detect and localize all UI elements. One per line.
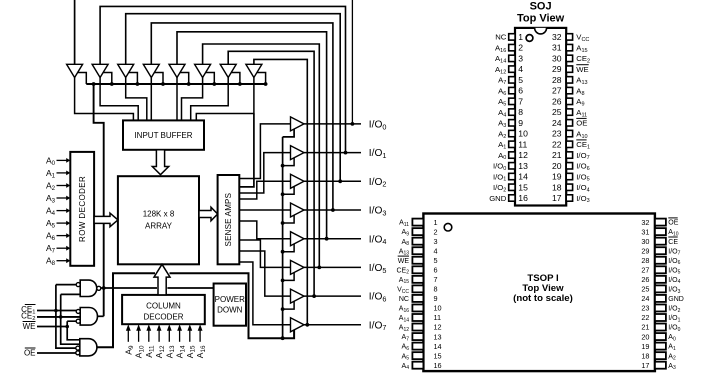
wire B6 output to input buffer block — [191, 78, 229, 121]
svg-text:A6: A6 — [402, 344, 410, 352]
wire sense amp to output buffer O1 — [239, 153, 290, 193]
svg-text:6: 6 — [434, 266, 438, 275]
SOJ pin 32 lead — [566, 34, 572, 40]
SOJ pin 15 lead — [509, 184, 515, 190]
TSOP pin 20 lead — [655, 333, 666, 340]
TSOP pin 4 lead — [412, 247, 423, 254]
SOJ pin 19 lead — [566, 173, 572, 179]
output buffer triangle O3 — [291, 203, 305, 217]
svg-text:A3: A3 — [498, 119, 506, 129]
svg-text:A14: A14 — [495, 54, 506, 64]
wire sense amp to output buffer O4 — [239, 221, 290, 239]
input buffer triangle B1 — [92, 64, 108, 77]
block POWER DOWN — [214, 284, 246, 326]
wire enable tap to buffer O5 — [283, 272, 295, 281]
input buffer triangle B4 — [169, 64, 185, 77]
junction I/O5 feedback tap — [317, 266, 321, 270]
input buffer triangle B0 — [67, 64, 83, 77]
TSOP pin 21 lead — [655, 324, 666, 331]
SOJ pin 31 lead — [566, 44, 572, 50]
svg-text:I/O3: I/O3 — [369, 206, 387, 218]
svg-text:23: 23 — [641, 304, 649, 313]
svg-text:A14: A14 — [399, 315, 409, 323]
junction CE1 tap — [54, 309, 58, 313]
svg-text:I/O5: I/O5 — [576, 172, 589, 182]
svg-text:GND: GND — [668, 296, 684, 303]
address input A10 arrow — [138, 331, 140, 342]
junction tap B2 on bus — [136, 82, 140, 86]
wire I/O3 feedback loop to input buffer B3 — [151, 23, 333, 210]
SOJ pin 9 lead — [509, 120, 515, 126]
junction I/O4 feedback tap — [325, 237, 329, 241]
svg-text:30: 30 — [552, 53, 562, 63]
wire I/O5 line — [304, 266, 361, 268]
svg-text:32: 32 — [552, 32, 562, 42]
svg-text:I/O6: I/O6 — [576, 162, 589, 172]
input buffer triangle B3 — [143, 64, 159, 77]
TSOP pin 25 lead — [655, 285, 666, 292]
svg-text:WE: WE — [576, 65, 588, 74]
bubble G3 input OE — [76, 351, 80, 355]
svg-text:A4: A4 — [46, 206, 56, 218]
SOJ pin 29 lead — [566, 66, 572, 72]
svg-text:31: 31 — [641, 227, 649, 236]
svg-text:A10: A10 — [576, 129, 587, 139]
junction enable tap O4 — [281, 250, 285, 254]
enable tap of buffer B2 — [129, 73, 138, 85]
address input A4 arrow — [57, 210, 67, 212]
output buffer triangle O2 — [291, 174, 305, 188]
svg-text:A7: A7 — [46, 243, 56, 255]
bubble G2 input WE — [76, 319, 80, 323]
svg-text:A11: A11 — [399, 220, 409, 228]
svg-text:14: 14 — [434, 342, 442, 351]
svg-text:I/O6: I/O6 — [369, 292, 387, 304]
svg-text:COLUMN: COLUMN — [146, 302, 181, 311]
TSOP pin1 indicator circle — [444, 223, 452, 231]
output buffer triangle O4 — [291, 232, 305, 246]
junction I/O1 feedback tap — [344, 151, 348, 155]
svg-text:1: 1 — [518, 32, 523, 42]
hollow arrow column decoder to array — [154, 264, 170, 295]
svg-text:A1: A1 — [46, 168, 56, 180]
svg-text:29: 29 — [641, 246, 649, 255]
svg-text:CE2: CE2 — [396, 267, 409, 275]
svg-text:ARRAY: ARRAY — [145, 222, 173, 231]
svg-text:A13: A13 — [576, 76, 587, 86]
wire input of buffer B0 (clipped at top) — [74, 0, 76, 64]
wire B3 output to input buffer block — [150, 78, 152, 121]
SOJ pin 10 lead — [509, 130, 515, 136]
wire I/O2 line — [304, 180, 361, 182]
svg-text:12: 12 — [434, 323, 442, 332]
svg-text:32: 32 — [641, 218, 649, 227]
svg-text:A0: A0 — [46, 155, 56, 167]
wire sense amp to output buffer O2 — [239, 181, 290, 199]
junction enable tap O7 — [281, 336, 285, 340]
svg-text:A5: A5 — [402, 353, 410, 361]
gate G1 (chip enable NAND) — [80, 280, 97, 296]
svg-text:20: 20 — [552, 161, 562, 171]
svg-text:SOJ: SOJ — [530, 1, 552, 13]
svg-text:A8: A8 — [46, 256, 56, 268]
address input A15 arrow — [189, 331, 191, 342]
svg-text:11: 11 — [434, 313, 442, 322]
wire gate G3 output OE enable route to output buffers — [97, 273, 294, 347]
junction enable tap O3 — [281, 221, 285, 225]
hollow arrow row decoder to array — [94, 213, 118, 227]
wire WE net to gates G2 and G3 — [67, 321, 80, 340]
svg-text:A13: A13 — [399, 248, 409, 256]
gate G2 (write enable AND) — [80, 308, 97, 326]
svg-text:A6: A6 — [498, 86, 506, 96]
svg-text:A4: A4 — [498, 108, 506, 118]
TSOP pin 30 lead — [655, 238, 666, 245]
svg-text:ROW DECODER: ROW DECODER — [78, 176, 87, 242]
enable tap of buffer B4 — [180, 73, 189, 85]
address input A5 arrow — [57, 222, 67, 224]
svg-text:21: 21 — [641, 323, 649, 332]
address input A6 arrow — [57, 235, 67, 237]
SOJ top notch — [535, 28, 547, 34]
svg-text:I/O7: I/O7 — [668, 248, 680, 256]
svg-text:A5: A5 — [498, 97, 506, 107]
wire sense amp to output buffer O6 — [239, 251, 290, 296]
svg-text:A8: A8 — [402, 239, 410, 247]
junction bus to gate G2 net — [92, 82, 96, 86]
svg-text:A3: A3 — [46, 193, 56, 205]
junction enable tap O1 — [281, 164, 285, 168]
junction I/O7 feedback tap — [305, 323, 309, 327]
svg-text:6: 6 — [518, 86, 523, 96]
svg-text:23: 23 — [552, 129, 562, 139]
svg-text:A12: A12 — [495, 65, 506, 75]
svg-text:25: 25 — [552, 107, 562, 117]
svg-text:WE: WE — [398, 258, 410, 265]
wire I/O2 feedback loop to input buffer B2 — [126, 14, 341, 182]
address input A7 arrow — [57, 247, 67, 249]
SOJ pin 6 lead — [509, 87, 515, 93]
SOJ pin 23 lead — [566, 130, 572, 136]
svg-text:A16: A16 — [399, 306, 409, 314]
wire B4 output to input buffer block — [176, 78, 178, 121]
junction tap B3 on bus — [161, 82, 165, 86]
svg-text:28: 28 — [552, 75, 562, 85]
SOJ pin 4 lead — [509, 66, 515, 72]
address input A14 arrow — [179, 331, 181, 342]
svg-text:14: 14 — [518, 172, 528, 182]
SOJ pin 11 lead — [509, 141, 515, 147]
junction tap B1 on bus — [110, 82, 114, 86]
svg-text:A2: A2 — [668, 353, 676, 361]
svg-text:22: 22 — [552, 139, 562, 149]
svg-text:I/O4: I/O4 — [668, 277, 680, 285]
SOJ pin 3 lead — [509, 55, 515, 61]
svg-text:CE: CE — [668, 239, 678, 246]
address input A0 arrow — [57, 159, 67, 161]
svg-text:15: 15 — [518, 182, 528, 192]
svg-text:A16: A16 — [495, 43, 506, 53]
TSOP pin 9 lead — [412, 295, 423, 302]
wire WE input — [37, 326, 67, 328]
svg-text:7: 7 — [434, 275, 438, 284]
svg-text:13: 13 — [434, 332, 442, 341]
svg-text:I/O0: I/O0 — [668, 325, 680, 333]
bubble G3 input CE1 — [76, 346, 80, 350]
TSOP pin 31 lead — [655, 228, 666, 235]
svg-text:A9: A9 — [402, 229, 410, 237]
SOJ pin 28 lead — [566, 77, 572, 83]
svg-text:19: 19 — [641, 342, 649, 351]
svg-text:INPUT BUFFER: INPUT BUFFER — [134, 131, 192, 140]
svg-text:A11: A11 — [576, 108, 587, 118]
svg-text:2: 2 — [434, 227, 438, 236]
svg-text:NC: NC — [399, 296, 409, 303]
svg-text:SENSE AMPS: SENSE AMPS — [224, 193, 233, 247]
wire sense amp to output buffer O5 — [239, 240, 290, 267]
TSOP pin 2 lead — [412, 228, 423, 235]
wire I/O6 feedback loop to input buffer B6 — [228, 51, 314, 296]
address input A11 arrow — [148, 331, 150, 342]
junction I/O0 feedback tap — [351, 122, 355, 126]
svg-text:1: 1 — [434, 218, 438, 227]
wire gate G2 output stub — [97, 315, 103, 317]
svg-text:WE: WE — [23, 322, 36, 331]
TSOP pin 19 lead — [655, 343, 666, 350]
svg-text:I/O4: I/O4 — [369, 234, 387, 246]
svg-text:2: 2 — [518, 43, 523, 53]
block 128K x 8 ARRAY — [118, 176, 199, 264]
junction tap B6 on bus — [238, 82, 242, 86]
svg-text:VCC: VCC — [576, 33, 589, 43]
svg-text:CE2: CE2 — [576, 54, 590, 64]
svg-text:7: 7 — [518, 96, 523, 106]
TSOP pin 29 lead — [655, 247, 666, 254]
SOJ pin 13 lead — [509, 163, 515, 169]
svg-text:16: 16 — [518, 193, 528, 203]
TSOP pin 3 lead — [412, 238, 423, 245]
wire sense amp to output buffer O7 — [239, 262, 290, 325]
svg-text:27: 27 — [552, 86, 562, 96]
svg-text:DECODER: DECODER — [143, 313, 183, 322]
TSOP pin 17 lead — [655, 362, 666, 369]
svg-text:3: 3 — [434, 237, 438, 246]
svg-text:DOWN: DOWN — [217, 306, 243, 315]
svg-text:I/O5: I/O5 — [369, 263, 387, 275]
svg-text:A0: A0 — [668, 334, 676, 342]
junction tap B4 on bus — [187, 82, 191, 86]
TSOP pin 8 lead — [412, 285, 423, 292]
svg-text:A12: A12 — [399, 325, 409, 333]
address input A13 arrow — [168, 331, 170, 342]
svg-text:A2: A2 — [46, 180, 56, 192]
svg-text:18: 18 — [552, 182, 562, 192]
svg-text:POWER: POWER — [215, 295, 245, 304]
svg-text:30: 30 — [641, 237, 649, 246]
svg-text:A16: A16 — [195, 345, 207, 358]
TSOP pin 14 lead — [412, 343, 423, 350]
svg-text:(not to scale): (not to scale) — [513, 293, 573, 304]
svg-text:I/O7: I/O7 — [576, 151, 589, 161]
svg-text:10: 10 — [434, 304, 442, 313]
svg-text:5: 5 — [434, 256, 438, 265]
svg-text:27: 27 — [641, 266, 649, 275]
wire I/O4 line — [304, 238, 361, 240]
svg-text:22: 22 — [641, 313, 649, 322]
junction WE tap — [65, 325, 69, 329]
svg-text:CE1: CE1 — [576, 140, 590, 150]
svg-text:13: 13 — [518, 161, 528, 171]
svg-text:24: 24 — [552, 118, 562, 128]
SOJ pin 1 lead — [509, 34, 515, 40]
svg-text:I/O0: I/O0 — [493, 162, 506, 172]
input buffer triangle B7 — [246, 64, 262, 77]
TSOP pin 32 lead — [655, 219, 666, 226]
svg-text:8: 8 — [434, 285, 438, 294]
svg-text:I/O3: I/O3 — [668, 286, 680, 294]
enable tap of buffer B3 — [154, 73, 163, 85]
address input A8 arrow — [57, 260, 67, 262]
address input A12 arrow — [158, 331, 160, 342]
SOJ pin 8 lead — [509, 109, 515, 115]
SOJ pin 25 lead — [566, 109, 572, 115]
svg-text:24: 24 — [641, 294, 649, 303]
junction I/O2 feedback tap — [338, 179, 342, 183]
wire I/O3 line — [304, 209, 361, 211]
svg-text:VCC: VCC — [397, 286, 409, 294]
TSOP package body — [423, 214, 655, 372]
svg-text:I/O4: I/O4 — [576, 183, 589, 193]
svg-text:28: 28 — [641, 256, 649, 265]
SOJ pin 17 lead — [566, 195, 572, 201]
svg-text:A5: A5 — [46, 218, 56, 230]
wire CE1 net to gates G1 and G3 — [56, 285, 76, 349]
SOJ pin 27 lead — [566, 87, 572, 93]
wire I/O1 feedback loop to input buffer B1 — [100, 6, 345, 152]
svg-text:5: 5 — [518, 75, 523, 85]
TSOP pin 11 lead — [412, 314, 423, 321]
address input A16 arrow — [199, 331, 201, 342]
svg-text:21: 21 — [552, 150, 562, 160]
junction enable tap O6 — [281, 307, 285, 311]
svg-text:29: 29 — [552, 64, 562, 74]
svg-text:3: 3 — [518, 53, 523, 63]
svg-text:OE: OE — [668, 220, 678, 227]
SOJ pin 5 lead — [509, 77, 515, 83]
wire enable net bus to gate G2 output — [94, 84, 104, 316]
svg-text:25: 25 — [641, 285, 649, 294]
TSOP pin 15 lead — [412, 352, 423, 359]
svg-text:A15: A15 — [576, 43, 587, 53]
TSOP pin 28 lead — [655, 257, 666, 264]
SOJ pin 16 lead — [509, 195, 515, 201]
SOJ pin 12 lead — [509, 152, 515, 158]
svg-text:31: 31 — [552, 43, 562, 53]
enable tap of buffer B5 — [206, 73, 215, 85]
SOJ pin 7 lead — [509, 98, 515, 104]
svg-text:I/O5: I/O5 — [668, 267, 680, 275]
wire CE2 net to gates G1 and G3 — [61, 294, 80, 344]
svg-text:I/O6: I/O6 — [668, 258, 680, 266]
wire enable tap to buffer O1 — [283, 157, 295, 166]
svg-text:A15: A15 — [399, 277, 409, 285]
svg-text:A3: A3 — [668, 363, 676, 371]
wire OE input — [37, 352, 76, 354]
svg-text:A7: A7 — [402, 334, 410, 342]
TSOP pin 27 lead — [655, 266, 666, 273]
svg-text:I/O1: I/O1 — [493, 172, 506, 182]
block INPUT BUFFER — [123, 120, 204, 149]
TSOP pin 16 lead — [412, 362, 423, 369]
SOJ package body — [515, 28, 566, 206]
svg-text:A1: A1 — [668, 344, 676, 352]
svg-text:10: 10 — [518, 129, 528, 139]
bubble G1 output — [97, 286, 101, 290]
TSOP pin 18 lead — [655, 352, 666, 359]
wire enable tap to buffer O4 — [283, 243, 295, 252]
wire sense amp to output buffer O0 — [239, 124, 290, 179]
junction tap B7 on bus — [264, 82, 268, 86]
svg-text:128K x 8: 128K x 8 — [143, 210, 175, 219]
svg-text:I/O2: I/O2 — [668, 306, 680, 314]
wire CE2 input — [37, 316, 80, 318]
junction enable tap O2 — [281, 192, 285, 196]
TSOP pin 7 lead — [412, 276, 423, 283]
svg-text:I/O2: I/O2 — [493, 183, 506, 193]
svg-text:OE: OE — [576, 119, 587, 128]
block SENSE AMPS — [218, 175, 240, 264]
TSOP pin 12 lead — [412, 324, 423, 331]
SOJ pin 2 lead — [509, 44, 515, 50]
TSOP pin 10 lead — [412, 304, 423, 311]
TSOP pin 24 lead — [655, 295, 666, 302]
junction I/O6 feedback tap — [312, 294, 316, 298]
junction tap B5 on bus — [212, 82, 216, 86]
wire enable tap to buffer O3 — [283, 215, 295, 224]
wire I/O1 line — [304, 152, 361, 154]
svg-text:Top View: Top View — [517, 12, 565, 24]
input buffer triangle B2 — [118, 64, 134, 77]
block ROW DECODER — [70, 152, 94, 266]
junction CE2 tap — [59, 315, 63, 319]
enable tap of buffer B1 — [103, 73, 112, 85]
wire B7 branch down to sense amps edge — [239, 114, 254, 187]
enable tap of buffer B0 — [78, 73, 87, 85]
input-buffer enable bus — [86, 83, 266, 85]
bubble G2 input CE1 — [76, 309, 80, 313]
SOJ pin 24 lead — [566, 120, 572, 126]
TSOP pin 26 lead — [655, 276, 666, 283]
wire I/O0 feedback vertical (clipped at top) — [351, 0, 353, 124]
wire CE1 input — [37, 310, 76, 312]
svg-text:17: 17 — [552, 193, 562, 203]
TSOP pin 13 lead — [412, 333, 423, 340]
svg-text:9: 9 — [434, 294, 438, 303]
hollow arrow input buffer to array — [152, 150, 168, 175]
junction I/O3 feedback tap — [331, 208, 335, 212]
output buffer triangle O5 — [291, 260, 305, 274]
wire B1 output to input buffer block — [100, 78, 138, 121]
SOJ pin 20 lead — [566, 163, 572, 169]
svg-text:I/O1: I/O1 — [668, 315, 680, 323]
output buffer triangle O1 — [291, 146, 305, 160]
wire B0 output to input buffer block — [75, 78, 134, 121]
svg-text:19: 19 — [552, 172, 562, 182]
svg-text:I/O2: I/O2 — [369, 177, 387, 189]
gate G3 (output enable AND) — [80, 339, 97, 356]
svg-text:20: 20 — [641, 332, 649, 341]
enable tap of buffer B7 — [257, 73, 266, 85]
